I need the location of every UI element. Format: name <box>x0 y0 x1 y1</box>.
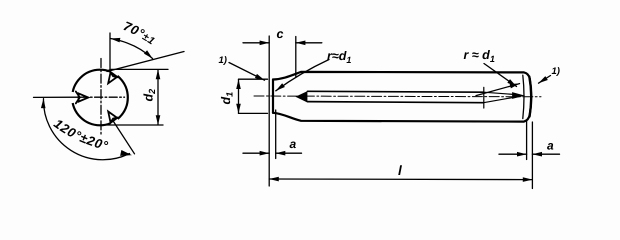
r~d1 leader left (curved) <box>276 60 329 91</box>
a-left dimension arrows <box>243 152 269 154</box>
a-right dimension arrows <box>499 153 527 155</box>
label 120deg <box>53 126 118 153</box>
right end extension line <box>531 122 533 189</box>
c dimension arrows <box>243 42 269 44</box>
c right extension line <box>295 37 297 77</box>
a-right groove-end extension line <box>526 121 528 160</box>
a-left groove-start extension line <box>275 110 277 159</box>
svg-text:l: l <box>398 163 402 178</box>
pin outline circle <box>72 70 128 126</box>
svg-text:1): 1) <box>552 66 560 77</box>
70deg dimension: vertical extension ray <box>109 33 111 70</box>
svg-text:1): 1) <box>219 55 227 66</box>
groove start wedge (left) <box>296 92 307 102</box>
groove notch top-right (60deg) <box>108 70 118 83</box>
d2 dimension: bottom extension line <box>100 124 163 126</box>
l dimension line <box>269 178 532 181</box>
groove edge lower <box>308 102 484 103</box>
right end face arc (bold) <box>529 77 531 117</box>
svg-text:c: c <box>277 27 284 41</box>
120deg dimension: inclined ray from bottom groove <box>113 120 135 154</box>
d1 dimension line <box>238 79 240 113</box>
d2 dimension: top extension line <box>111 68 168 70</box>
groove runout leader line (rising) <box>476 84 520 96</box>
r~d1 leader right <box>484 64 517 87</box>
svg-text:a: a <box>547 139 554 153</box>
groove end tick <box>483 87 485 108</box>
footnote 1) leader right <box>539 76 551 84</box>
d1 extension bottom <box>239 112 268 114</box>
label 70deg <box>122 29 157 48</box>
120deg dimension arc with arrows <box>43 99 129 160</box>
footnote 1) leader left <box>229 63 265 81</box>
groove end wedge (right) <box>513 93 524 99</box>
svg-text:a: a <box>290 137 297 151</box>
120deg dimension: horizontal ray from left groove <box>34 96 81 98</box>
d1 extension top <box>239 78 268 80</box>
70deg dimension arc with arrows <box>111 39 153 59</box>
groove edge upper <box>308 90 484 93</box>
groove notch left (180deg) <box>72 92 88 104</box>
70deg dimension: inclined extension ray <box>107 52 184 72</box>
horizontal centerline <box>80 96 125 98</box>
groove runout lines (right) <box>484 92 520 103</box>
long left extension line <box>268 36 270 186</box>
vertical centerline <box>100 59 102 137</box>
pin body outline <box>272 80 274 113</box>
groove notch bottom-right (300deg) <box>108 112 118 125</box>
d2 dimension line with arrows <box>157 70 159 125</box>
centerline (axis) <box>254 95 541 98</box>
right end chamfer line <box>523 75 524 118</box>
